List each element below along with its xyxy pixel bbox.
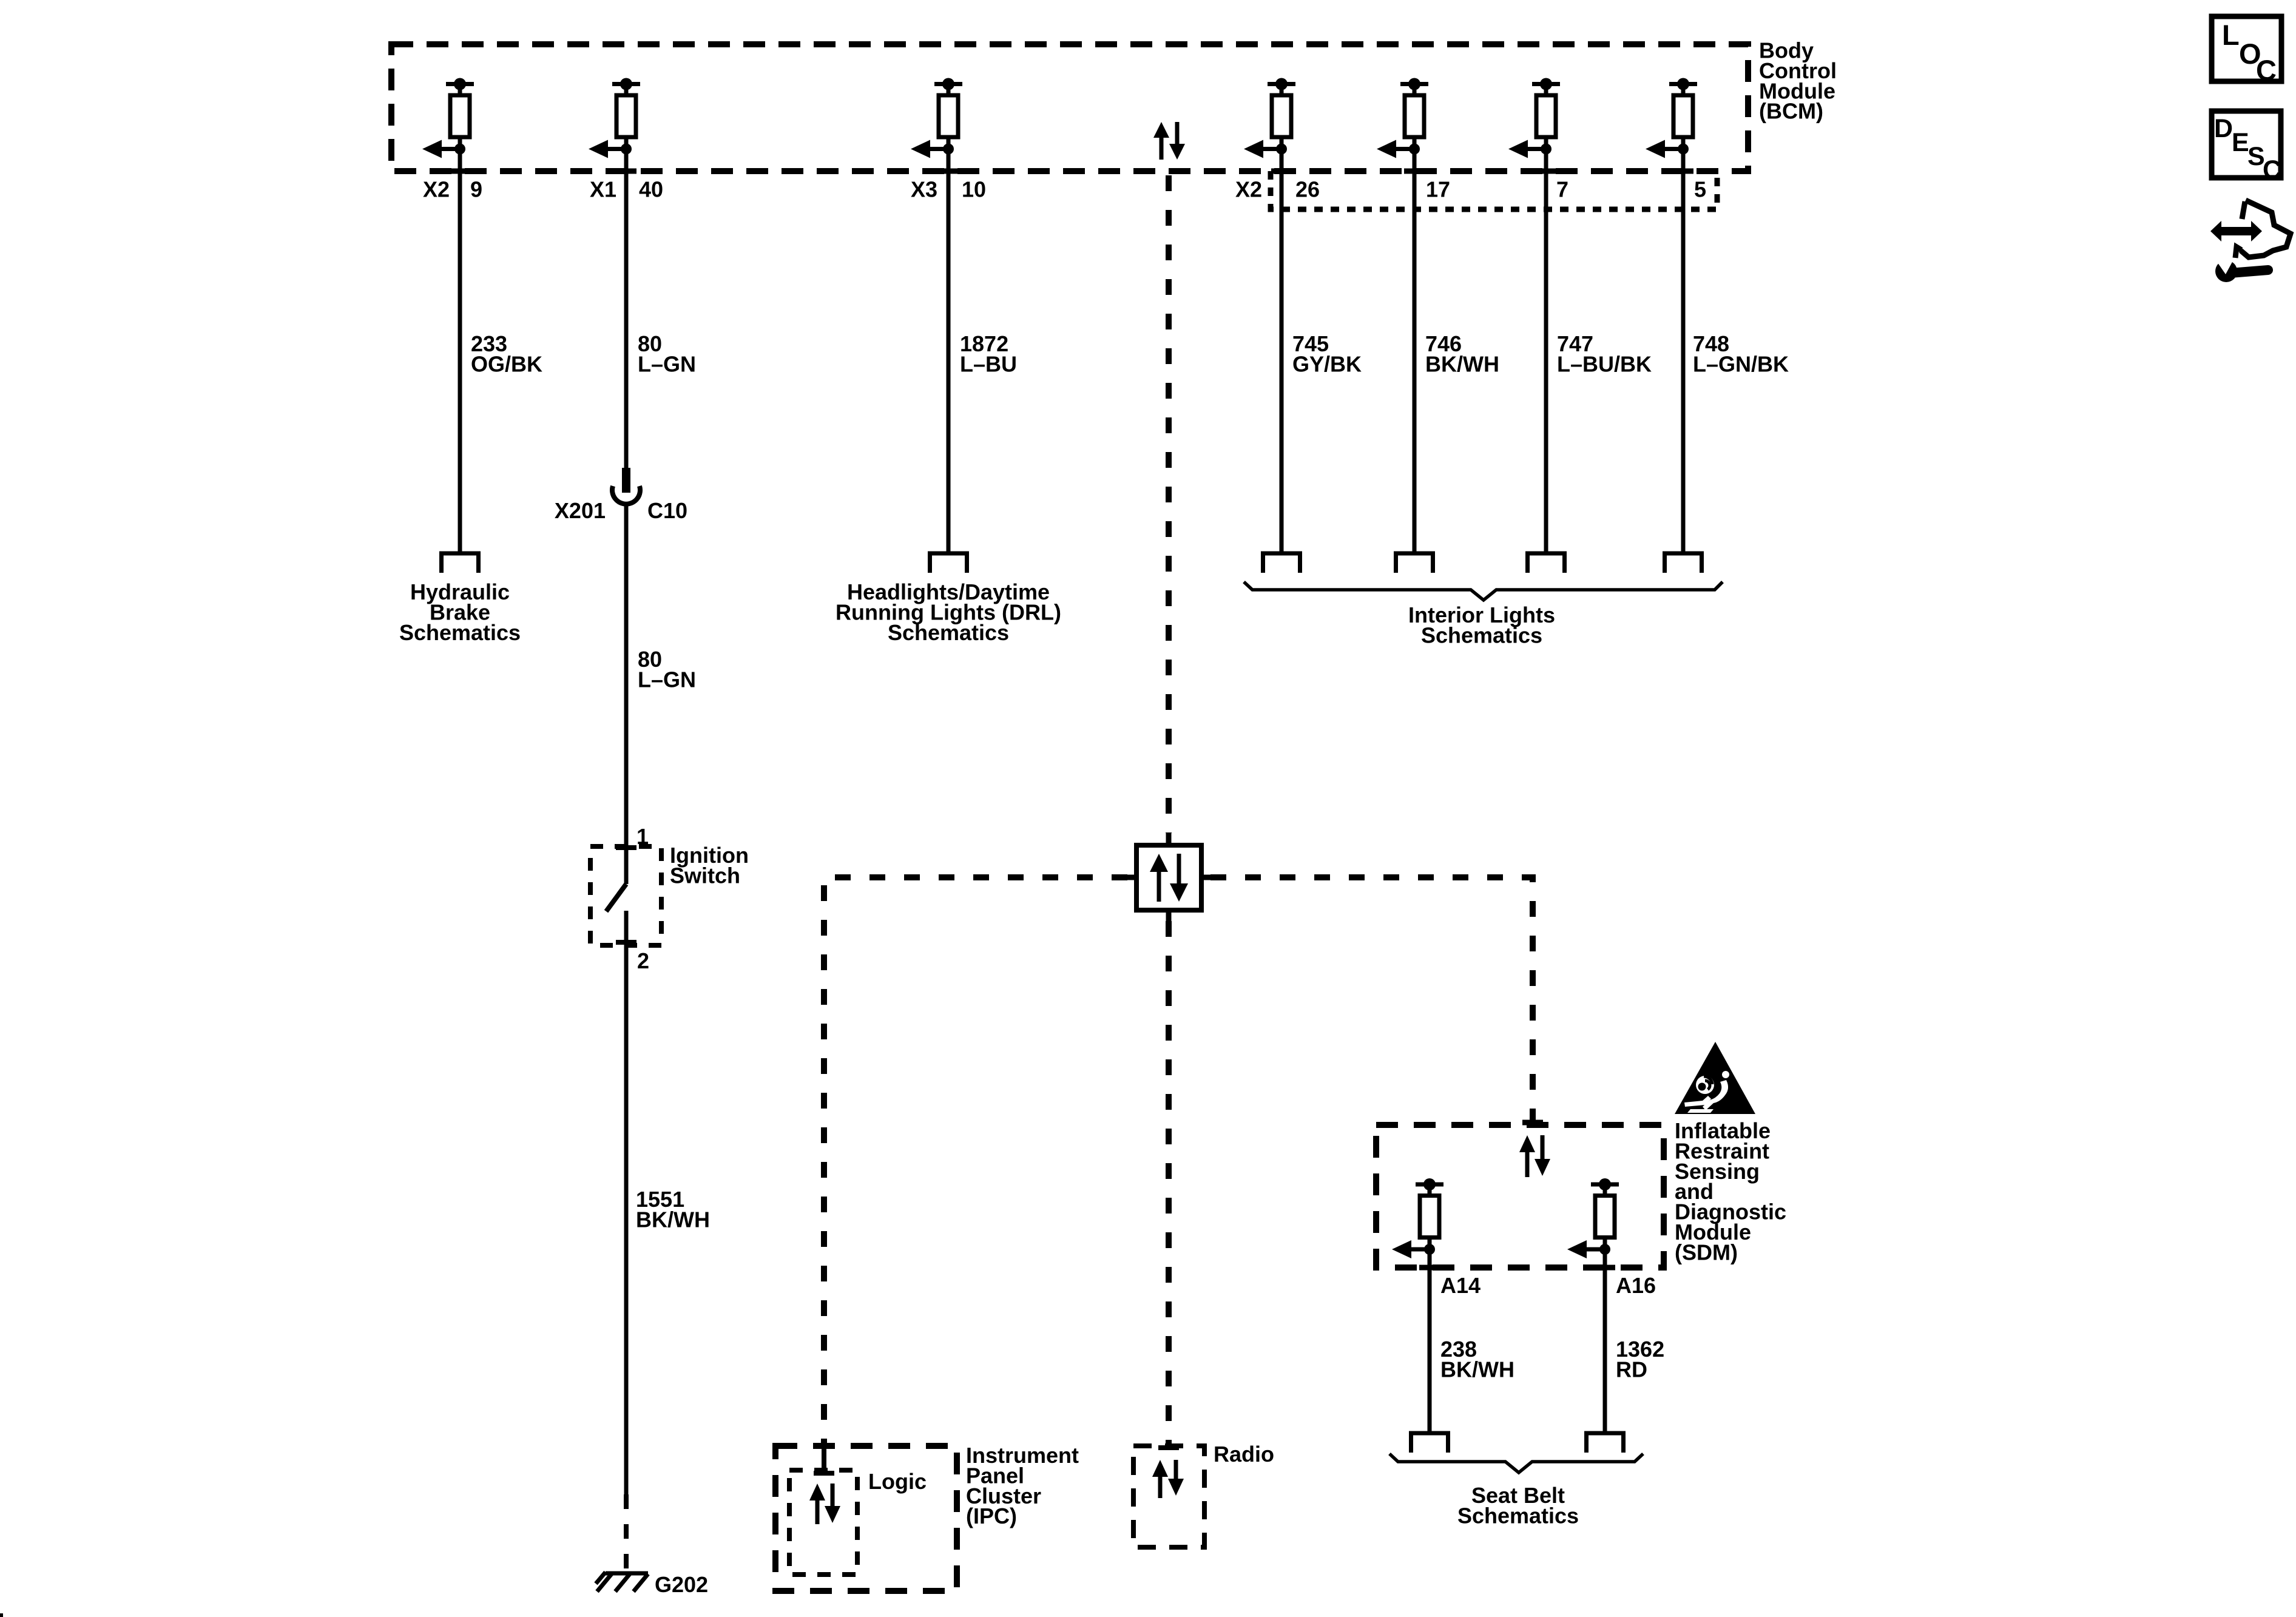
switch blade [606,884,626,911]
pin tick X2-26 at BCM edge [1271,169,1292,174]
svg-text:X1: X1 [590,177,616,202]
pin tick A16 at SDM edge [1595,1265,1615,1271]
wire 1551 BK/WH solid [624,953,629,1494]
logic box inside IPC (dashed) [789,1470,857,1575]
wire 80 L-GN upper [624,149,629,470]
svg-text:L–GN: L–GN [638,667,696,692]
svg-text:7: 7 [1556,177,1568,202]
wire stub into IPC logic [822,1446,826,1473]
wire serial data left branch (dashed) [824,877,1127,1446]
off-page terminal interior lights 4 [1665,553,1702,573]
label Ignition Switch [670,843,749,888]
pin tick 5 at BCM edge [1673,169,1693,174]
module box BCM (Body Control Module) [391,44,1748,171]
svg-text:G202: G202 [655,1572,708,1597]
BCM pin 5 [1646,78,1697,158]
serial data arrows inside IPC logic [809,1484,825,1524]
pin tick 17 at BCM edge [1404,169,1425,174]
value label 748 L-GN/BK [1693,331,1789,376]
svg-text:L–GN/BK: L–GN/BK [1693,351,1789,376]
value label 1362 RD [1616,1337,1664,1382]
wire 747 L-BU/BK [1544,149,1548,552]
wire serial data trunk (dashed) [1166,175,1172,833]
svg-text:(IPC): (IPC) [966,1504,1017,1528]
serial data arrows inside splice box [1150,854,1168,902]
svg-text:GY/BK: GY/BK [1292,351,1362,376]
wire 233 OG/BK [458,149,462,552]
svg-text:10: 10 [962,177,986,202]
svg-text:RD: RD [1616,1357,1647,1382]
pin label X3 10 [911,177,986,202]
off-page terminal seat belt 2 [1587,1433,1624,1453]
BCM pin X2-9 [422,78,474,158]
svg-text:X3: X3 [911,177,937,202]
icon LOC box [2212,16,2281,81]
value label 80 L-GN [638,331,696,376]
SDM pin A14 [1392,1178,1443,1258]
svg-text:OG/BK: OG/BK [471,351,542,376]
svg-text:Radio: Radio [1214,1442,1274,1467]
ground G202 [596,1572,648,1592]
svg-text:C: C [2256,54,2277,86]
inline connector X201 C10 blade [622,468,630,493]
terminal tick Radio [1158,1445,1179,1450]
svg-text:BK/WH: BK/WH [636,1207,710,1232]
off-page terminal Headlights/DRL [930,553,967,573]
BCM pin X2-26 [1244,78,1295,158]
pin tick X2-9 at BCM edge [450,169,470,174]
svg-text:Switch: Switch [670,863,740,888]
label Hydraulic Brake Schematics [399,579,521,645]
icon DESC box [2212,111,2281,178]
svg-text:L–GN: L–GN [638,351,696,376]
wire 748 L-GN/BK [1681,149,1686,552]
svg-text:Logic: Logic [868,1469,927,1494]
svg-text:26: 26 [1295,177,1320,202]
terminal tick IPC logic [814,1471,834,1476]
connector box X2 pin group (dotted) [1271,171,1717,209]
pin label X1 40 [590,177,663,202]
label Instrument Panel Cluster (IPC) [966,1443,1079,1528]
svg-text:(BCM): (BCM) [1759,99,1823,124]
wire 80 L-GN lower [624,505,629,884]
label Headlights/Daytime Running Lights (DRL) Schematics [836,579,1061,645]
off-page terminal seat belt 1 [1411,1433,1448,1453]
wire 745 GY/BK [1280,149,1284,552]
pin tick 7 at BCM edge [1536,169,1556,174]
off-page terminal interior lights 3 [1528,553,1565,573]
svg-text:BK/WH: BK/WH [1440,1357,1514,1382]
svg-text:Schematics: Schematics [888,620,1009,645]
module box Radio (dashed) [1133,1446,1204,1547]
svg-text:2: 2 [637,948,649,973]
svg-text:9: 9 [470,177,482,202]
svg-text:Schematics: Schematics [1457,1503,1579,1528]
svg-text:L–BU/BK: L–BU/BK [1557,351,1652,376]
pin label X2 26 [1235,177,1320,202]
switch box Ignition Switch (dashed) [590,846,661,945]
brace seat belt [1389,1454,1643,1473]
wire 1362 RD [1603,1249,1607,1431]
svg-text:BK/WH: BK/WH [1425,351,1499,376]
svg-text:Schematics: Schematics [399,620,521,645]
value label 80 L-GN lower [638,647,696,692]
icon connector service (arrow + wrench) [2210,200,2291,282]
SDM pin A16 [1567,1178,1619,1258]
svg-text:A16: A16 [1616,1273,1656,1298]
off-page terminal Hydraulic Brake [442,553,479,573]
BCM pin X1-40 [589,78,640,158]
pin label X2 9 [423,177,482,202]
off-page terminal interior lights 1 [1263,553,1300,573]
serial data arrows inside SDM [1519,1135,1535,1177]
label Inflatable Restraint Sensing and Diagnostic Module (SDM) [1675,1118,1786,1264]
serial data arrows inside Radio [1152,1460,1168,1498]
brace interior lights [1244,582,1723,600]
module box IPC Instrument Panel Cluster (dashed) [775,1446,957,1591]
pin tick A14 at SDM edge [1419,1265,1440,1271]
inline connector X201 C10 socket arc [612,486,640,504]
svg-text:D: D [2214,114,2233,143]
svg-text:A14: A14 [1440,1273,1481,1298]
BCM pin X3-10 [911,78,962,158]
value label 1551 BK/WH [636,1187,710,1232]
BCM pin 17 [1377,78,1428,158]
svg-text:X201: X201 [555,498,606,523]
BCM pin 7 [1508,78,1560,158]
serial data arrows inside BCM [1153,122,1169,160]
svg-text:X2: X2 [1235,177,1262,202]
switch lower contact stub [624,911,629,953]
value label 233 OG/BK [471,331,542,376]
module box SDM (dashed) [1376,1125,1664,1268]
pin tick X1-40 at BCM edge [616,169,636,174]
svg-text:Schematics: Schematics [1421,623,1542,647]
off-page terminal interior lights 2 [1396,553,1433,573]
value label 1872 L-BU [960,331,1017,376]
wire serial data right branch (dashed) [1210,877,1533,1120]
value label 746 BK/WH [1425,331,1499,376]
wire 1872 L-BU [947,149,951,552]
svg-text:X2: X2 [423,177,450,202]
wire serial data lower trunk to radio (dashed) [1166,921,1172,1446]
value label 747 L-BU/BK [1557,331,1652,376]
svg-text:L–BU: L–BU [960,351,1017,376]
label X201 C10 [555,498,687,523]
page corner mark [0,1613,3,1617]
svg-text:E: E [2232,128,2249,157]
svg-text:17: 17 [1426,177,1450,202]
svg-text:40: 40 [639,177,663,202]
label Body Control Module (BCM) [1759,38,1837,124]
value label 745 GY/BK [1292,331,1362,376]
label Interior Lights Schematics [1408,603,1555,647]
svg-text:L: L [2222,19,2240,51]
wire 1551 BK/WH dashed to ground [624,1494,629,1571]
wire 746 BK/WH [1413,149,1417,552]
terminal tick SDM serial entry [1522,1120,1543,1126]
switch contact tick pin 1 [616,845,636,850]
svg-text:(SDM): (SDM) [1675,1240,1738,1264]
switch contact tick pin 2 [616,940,636,945]
svg-text:C: C [2263,155,2281,184]
warning triangle SRS [1675,1042,1755,1114]
splice box serial data [1166,833,1172,845]
label Seat Belt Schematics [1457,1483,1579,1528]
value label 238 BK/WH [1440,1337,1514,1382]
wire 238 BK/WH [1428,1249,1432,1431]
pin tick X3-10 at BCM edge [938,169,959,174]
svg-text:5: 5 [1694,177,1706,202]
svg-text:C10: C10 [647,498,687,523]
